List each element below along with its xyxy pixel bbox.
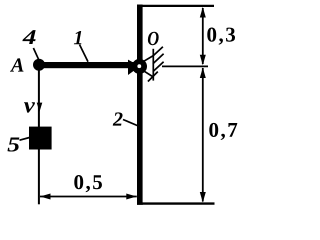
top extension line — [142, 5, 214, 7]
pivot blob at O — [132, 59, 147, 74]
mid extension line — [162, 65, 208, 67]
joint A dot — [33, 59, 45, 71]
label O — [148, 32, 159, 45]
leader 5 — [20, 138, 30, 141]
block 5 — [29, 127, 52, 150]
pin hole at O — [137, 64, 141, 68]
arrow left (0,5) — [40, 194, 51, 200]
arrow down (0,7 bottom) — [200, 192, 206, 203]
label 4 — [22, 30, 35, 44]
arrow right (0,5) — [126, 194, 137, 200]
support hatch line — [152, 49, 154, 81]
label 5 — [7, 138, 19, 152]
support triangle upper edge — [142, 56, 153, 63]
hatch tick 4 — [148, 72, 158, 82]
arrow up (0,7 top) — [200, 68, 206, 79]
leader 1 — [80, 45, 89, 62]
extension line below block — [38, 150, 40, 205]
label v — [24, 102, 35, 112]
leader 4 — [33, 48, 38, 59]
arrow down (0,3 bottom) — [200, 55, 206, 66]
velocity arrowhead v — [37, 103, 43, 112]
dimension line 0,3 — [202, 8, 204, 64]
label 1 — [74, 31, 82, 44]
leader 2 — [123, 120, 138, 126]
dimension text 0,5 — [74, 175, 102, 192]
hatch tick 2 — [153, 54, 164, 64]
label 2 — [113, 112, 123, 125]
beam 2 (vertical rod) — [137, 5, 143, 205]
dimension line 0,7 — [202, 68, 204, 202]
cord from A to block — [38, 68, 40, 127]
support triangle lower edge — [142, 70, 153, 77]
dimension line 0,5 — [40, 196, 137, 198]
label A — [10, 58, 24, 71]
dimension text 0,7 — [209, 123, 237, 140]
hatch tick 3 — [153, 62, 164, 72]
arrow up (0,3 top) — [200, 7, 206, 18]
bottom extension line — [142, 202, 215, 204]
rod 1 (horizontal) — [37, 62, 137, 68]
rod end flare at O — [128, 60, 140, 75]
dimension text 0,3 — [207, 28, 235, 45]
hatch tick 1 — [153, 47, 163, 56]
